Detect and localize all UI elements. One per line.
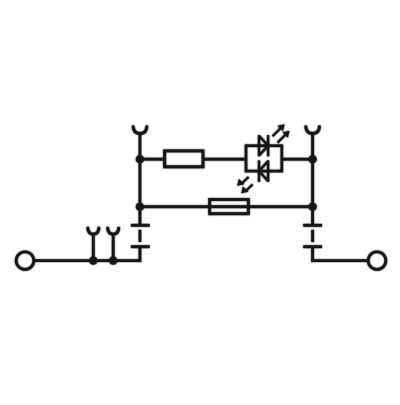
wire right vertical bbox=[311, 134, 314, 225]
junction dot at clamp 1 bbox=[89, 256, 97, 264]
light arrows top (emission up-right) bbox=[273, 124, 290, 143]
wire right disconnect to bottom rail bbox=[311, 248, 314, 262]
wire resistor to LED box bbox=[203, 158, 246, 161]
wire left vertical bbox=[138, 134, 141, 225]
junction dot at clamp 2 bbox=[109, 256, 117, 264]
junction dot right fuse-rail bbox=[308, 203, 316, 211]
LED D1 (top, anode left) bbox=[259, 135, 268, 156]
wire left disconnect to bottom rail bbox=[138, 248, 141, 262]
light arrows bottom (emission down-left) bbox=[237, 177, 252, 194]
junction dot left fuse-rail bbox=[136, 203, 144, 211]
wire fuse rail bbox=[140, 205, 313, 208]
clamp contact arc bottom-left 2 bbox=[108, 228, 119, 261]
wire LED box to right vertical bbox=[282, 158, 313, 161]
wire top rail left segment bbox=[140, 158, 165, 161]
disconnect contact left: upper bar bbox=[131, 224, 150, 227]
disconnect contact left: middle stub bbox=[138, 230, 141, 242]
disconnect contact left: lower bar bbox=[131, 245, 150, 248]
clamp contact arc top-right bbox=[306, 127, 320, 134]
LED pair box bbox=[246, 146, 282, 171]
LED D2 (bottom, anode right) bbox=[259, 160, 268, 181]
disconnect contact right: upper bar bbox=[303, 224, 322, 227]
fuse bbox=[210, 200, 249, 214]
wire bottom-right rail bbox=[311, 259, 368, 262]
clamp contact arc top-left bbox=[133, 127, 147, 134]
disconnect contact right: lower bar bbox=[303, 245, 322, 248]
wire bottom-left rail bbox=[35, 259, 141, 262]
junction dot right top-rail bbox=[308, 155, 316, 163]
resistor bbox=[165, 151, 203, 167]
disconnect contact right: middle stub bbox=[311, 230, 314, 242]
terminal circle left bbox=[16, 252, 34, 270]
clamp contact arc bottom-left 1 bbox=[88, 228, 99, 261]
terminal circle right bbox=[368, 252, 386, 270]
junction dot left top-rail bbox=[136, 155, 144, 163]
